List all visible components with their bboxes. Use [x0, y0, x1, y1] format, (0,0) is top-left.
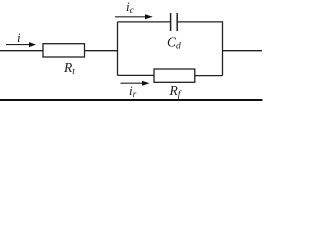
svg-text:ic: ic [126, 0, 135, 16]
svg-text:i: i [17, 30, 21, 45]
svg-text:Cd: Cd [167, 35, 181, 52]
svg-text:Rt: Rt [63, 60, 75, 77]
svg-text:Rf: Rf [169, 83, 182, 100]
svg-text:ir: ir [129, 83, 137, 100]
